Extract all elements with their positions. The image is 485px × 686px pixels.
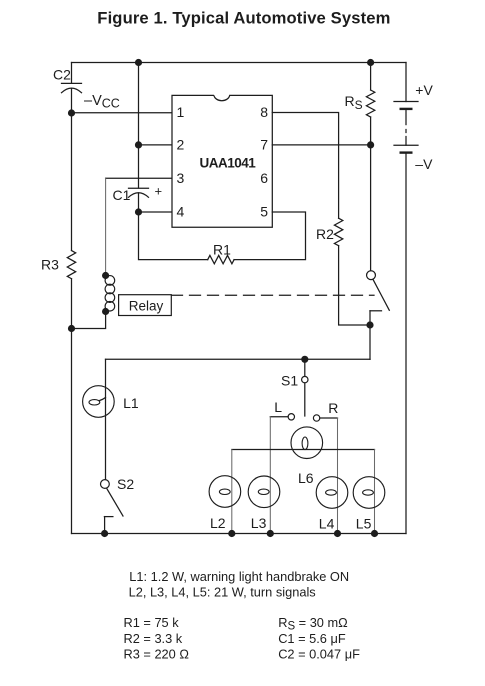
switch relay lever — [373, 279, 389, 310]
wire -VCC line to pin 1 — [72, 112, 173, 114]
node junction dot pin7/RS — [367, 141, 374, 148]
svg-text:L6: L6 — [298, 470, 314, 486]
svg-text:UAA1041: UAA1041 — [200, 155, 257, 170]
switch S2 circle — [101, 480, 110, 489]
switch relay contact circle — [367, 271, 376, 280]
svg-text:R3 = 220 Ω: R3 = 220 Ω — [124, 647, 190, 662]
svg-text:L1: 1.2 W, warning light handb: L1: 1.2 W, warning light handbrake ON — [129, 569, 349, 584]
wire L feeder down to L3 — [269, 417, 271, 534]
svg-text:L: L — [274, 399, 282, 415]
switch S1 pole lower wire — [304, 383, 306, 416]
node relay coil bottom dot — [102, 308, 109, 315]
resistor RS — [366, 90, 374, 117]
wire pin 4 — [139, 211, 173, 213]
wire L6 row right leg down to L5 — [374, 450, 376, 534]
node junction dot L2 bottom — [228, 530, 235, 537]
wire dashed mechanical linkage — [172, 294, 375, 296]
resistor R3 — [67, 251, 75, 279]
wire RS bottom to switch — [370, 117, 372, 271]
wire R1 to pin 5 — [234, 212, 306, 260]
svg-text:R2 = 3.3 k: R2 = 3.3 k — [124, 631, 183, 646]
lamp L6 — [291, 427, 323, 459]
switch S2 lever — [107, 488, 123, 516]
wire RS top — [370, 63, 372, 91]
svg-text:–V: –V — [415, 156, 433, 172]
svg-text:1: 1 — [177, 104, 185, 120]
svg-text:+V: +V — [415, 82, 433, 98]
wire bottom rail — [72, 533, 407, 535]
node -VCC junction dot — [68, 109, 75, 116]
resistor R2 — [334, 218, 342, 246]
node junction dot top rail at x=138.5 — [135, 59, 142, 66]
node junction dot S1 tap — [301, 356, 308, 363]
capacitor C2 — [62, 83, 82, 113]
svg-text:L2: L2 — [210, 515, 226, 531]
wire left rail middle — [71, 113, 73, 251]
wire relay coil return to left rail — [72, 312, 106, 329]
resistor R1 — [208, 255, 234, 263]
inductor relay coil — [105, 276, 115, 311]
switch S1 pole wire — [304, 359, 306, 376]
svg-text:R1: R1 — [213, 242, 231, 258]
svg-text:–VCC: –VCC — [84, 93, 120, 111]
node junction dot pin 2 — [135, 141, 142, 148]
svg-text:L5: L5 — [356, 516, 372, 532]
node junction dot R2/switch — [366, 321, 373, 328]
lamp L4 — [316, 477, 348, 509]
node junction dot top rail at RS — [367, 59, 374, 66]
wire R feeder down to L4 — [337, 418, 339, 534]
svg-text:4: 4 — [177, 203, 185, 219]
node junction dot L5 bottom — [371, 530, 378, 537]
svg-text:L2, L3, L4, L5: 21 W, turn sig: L2, L3, L4, L5: 21 W, turn signals — [129, 584, 316, 599]
wire pin 2 — [139, 144, 173, 146]
lamp L5 — [353, 477, 385, 509]
lamp L2 — [209, 476, 241, 508]
wire pin 8 to R2 branch — [272, 113, 338, 219]
wire L contact feeder — [270, 416, 288, 418]
node junction dot L4 bottom — [334, 530, 341, 537]
wire R2 bottom to switch node — [339, 246, 370, 325]
wire pin 3 to relay coil — [106, 177, 172, 179]
svg-text:Relay: Relay — [129, 299, 164, 314]
svg-text:3: 3 — [177, 170, 185, 186]
svg-text:+: + — [155, 184, 163, 199]
lamp L1 — [83, 386, 115, 418]
svg-text:R3: R3 — [41, 257, 59, 273]
svg-text:R1 = 75 k: R1 = 75 k — [124, 615, 180, 630]
contact L circle — [288, 414, 294, 420]
switch S1 circle — [302, 376, 308, 382]
svg-text:RS: RS — [345, 93, 363, 112]
wire vertical feed to pin2/C1 — [138, 63, 140, 189]
svg-text:C1 = 5.6 μF: C1 = 5.6 μF — [278, 631, 346, 646]
relay box — [119, 295, 172, 316]
svg-text:C1: C1 — [113, 187, 131, 203]
wire vertical down to relay coil — [105, 178, 107, 272]
battery V+ — [394, 63, 418, 534]
wire left rail upper (to C2) — [71, 63, 73, 84]
wire middle rail — [106, 358, 371, 360]
svg-text:R2: R2 — [316, 226, 334, 242]
svg-text:8: 8 — [260, 104, 268, 120]
node relay coil top dot — [102, 272, 109, 279]
switch S2 throw tick — [104, 516, 113, 518]
svg-text:6: 6 — [260, 170, 268, 186]
wire pin 7 to RS node — [272, 144, 370, 146]
svg-text:L1: L1 — [123, 395, 139, 411]
wire R contact feeder — [320, 417, 338, 419]
switch relay throw tick — [370, 310, 382, 312]
svg-text:S2: S2 — [117, 476, 134, 492]
capacitor C1 — [129, 188, 149, 212]
svg-text:5: 5 — [260, 203, 268, 219]
wire R1 branch from pin4 node — [139, 212, 208, 260]
node junction dot pin 4 — [135, 208, 142, 215]
svg-text:C2: C2 — [53, 67, 71, 83]
svg-text:L3: L3 — [251, 515, 267, 531]
svg-text:2: 2 — [177, 137, 185, 153]
wire L1 branch — [105, 359, 107, 479]
wire S2 throw to bottom rail — [104, 517, 106, 534]
node junction dot relay-return on left rail — [68, 325, 75, 332]
svg-text:S1: S1 — [281, 373, 298, 389]
node junction dot S2 bottom — [101, 530, 108, 537]
svg-text:Figure 1. Typical Automotive S: Figure 1. Typical Automotive System — [97, 9, 390, 28]
contact R circle — [313, 415, 319, 421]
svg-text:L4: L4 — [319, 516, 335, 532]
wire left rail lower — [71, 279, 73, 534]
svg-text:C2 = 0.047 μF: C2 = 0.047 μF — [278, 647, 360, 662]
svg-text:7: 7 — [260, 137, 268, 153]
wire L6 row left leg down to L2 — [231, 450, 233, 534]
wire L6 row horizontal — [232, 449, 375, 451]
wire top rail — [72, 62, 407, 64]
node junction dot L3 bottom — [267, 530, 274, 537]
wire switch throw down to rail corner — [369, 311, 371, 360]
svg-text:R: R — [328, 400, 338, 416]
lamp L3 — [248, 476, 280, 508]
IC U1 UAA1041 body — [172, 95, 272, 227]
